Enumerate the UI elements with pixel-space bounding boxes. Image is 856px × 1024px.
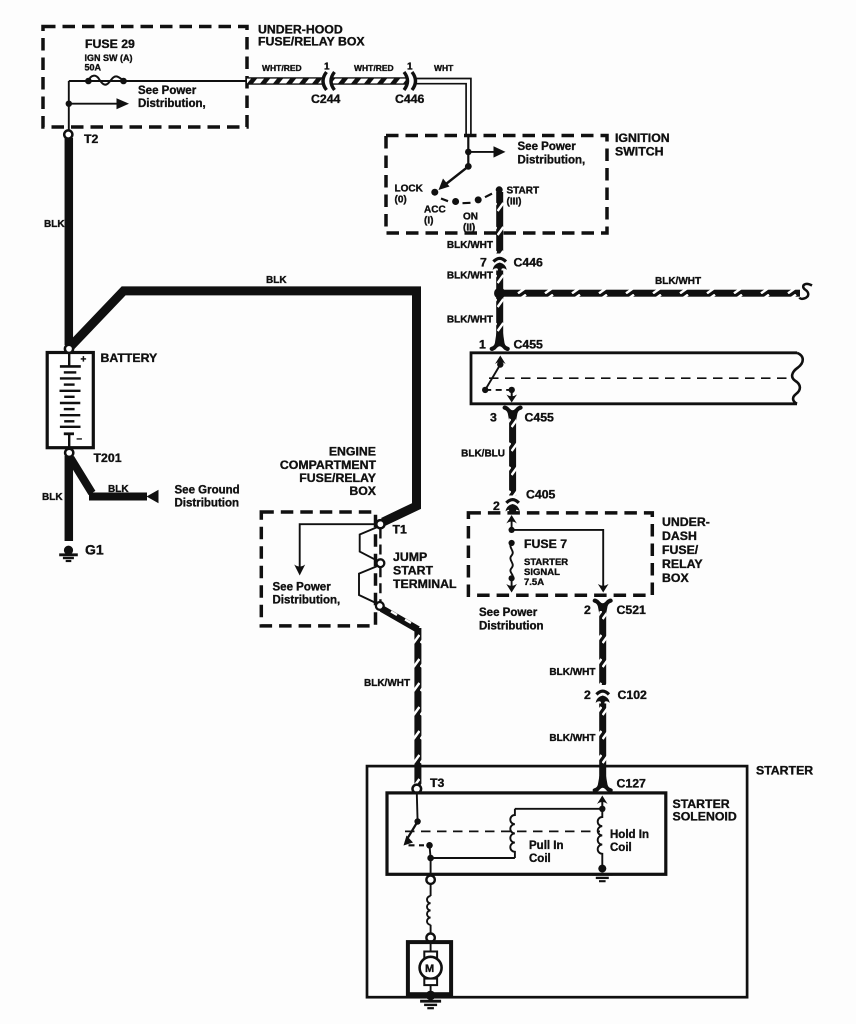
wire BLK/WHT diagonal from jump start down bbox=[382, 609, 419, 630]
svg-text:FUSE/: FUSE/ bbox=[662, 543, 699, 557]
box: engine compartment fuse/relay box (dashed) bbox=[261, 512, 375, 626]
svg-text:ENGINE: ENGINE bbox=[329, 445, 376, 459]
wire to motor coil bbox=[430, 884, 432, 896]
hold-in coil bbox=[598, 809, 603, 865]
connector C127 skirt bbox=[593, 776, 613, 792]
switch arm with arrowhead bbox=[439, 166, 469, 190]
contact ACC bbox=[452, 198, 459, 205]
svg-text:See Power: See Power bbox=[138, 85, 197, 97]
svg-text:BLK/WHT: BLK/WHT bbox=[447, 271, 493, 282]
arrow leaving strip down (C455-3) bbox=[506, 390, 517, 403]
fuse F7 symbol bbox=[506, 540, 517, 593]
box: motor enclosure bbox=[408, 942, 451, 994]
svg-text:WHT/RED: WHT/RED bbox=[262, 63, 302, 73]
svg-text:FUSE/RELAY: FUSE/RELAY bbox=[299, 471, 376, 485]
svg-text:M: M bbox=[425, 963, 434, 975]
arrow: see power distribution (fuse box) bbox=[69, 98, 129, 109]
svg-text:50A: 50A bbox=[85, 63, 102, 73]
svg-text:Distribution,: Distribution, bbox=[273, 595, 341, 607]
svg-text:IGN SW (A): IGN SW (A) bbox=[85, 53, 133, 63]
svg-text:BLK/WHT: BLK/WHT bbox=[447, 240, 493, 251]
wire BLK/WHT from START down to C446 bbox=[496, 192, 503, 254]
jump start link dashed vertical (lower) bbox=[379, 567, 381, 601]
contact START bbox=[496, 186, 503, 193]
svg-text:C446: C446 bbox=[395, 92, 425, 106]
svg-text:BLK/WHT: BLK/WHT bbox=[655, 276, 701, 287]
svg-text:7.5A: 7.5A bbox=[524, 577, 544, 588]
jump start terminal zigzag wire bbox=[360, 527, 378, 561]
branch wire to C521 bbox=[512, 530, 604, 586]
arrow entering strip (male of C455-1) bbox=[495, 356, 506, 365]
svg-text:T201: T201 bbox=[94, 451, 122, 465]
svg-text:T2: T2 bbox=[84, 132, 99, 146]
svg-text:Hold In: Hold In bbox=[610, 829, 649, 841]
svg-text:1: 1 bbox=[407, 62, 413, 73]
node: junction dot bbox=[494, 288, 505, 299]
svg-text:START: START bbox=[507, 185, 540, 196]
node dot bbox=[427, 855, 434, 862]
svg-text:BLK/WHT: BLK/WHT bbox=[364, 678, 410, 689]
node dot contact pivot bbox=[414, 818, 420, 824]
svg-text:JUMP: JUMP bbox=[393, 550, 427, 564]
svg-text:3: 3 bbox=[490, 411, 497, 425]
svg-text:IGNITION: IGNITION bbox=[615, 131, 670, 145]
terminal T3 bbox=[413, 785, 422, 794]
svg-text:LOCK: LOCK bbox=[395, 183, 424, 194]
arrow down at C521 bbox=[598, 584, 609, 593]
wire pull-in top link bbox=[515, 808, 602, 810]
svg-text:Distribution: Distribution bbox=[479, 621, 544, 633]
svg-text:1: 1 bbox=[479, 338, 486, 352]
svg-text:BOX: BOX bbox=[662, 571, 689, 585]
break symbol S bbox=[800, 284, 813, 299]
svg-text:BLK/WHT: BLK/WHT bbox=[549, 733, 595, 744]
node: junction dot fuse box bbox=[66, 101, 72, 107]
svg-text:BOX: BOX bbox=[349, 484, 376, 498]
box: starter (outer) bbox=[367, 766, 747, 997]
terminal circle below solenoid bbox=[426, 876, 434, 884]
label STARTER SIGNAL 7.5A bbox=[524, 557, 568, 588]
motor M bbox=[420, 957, 442, 979]
svg-text:C521: C521 bbox=[617, 603, 647, 617]
wire BLK/WHT C446 to junction bbox=[496, 271, 503, 294]
svg-text:(I): (I) bbox=[424, 215, 433, 226]
svg-text:SWITCH: SWITCH bbox=[615, 145, 664, 159]
dashed link bbox=[485, 389, 512, 391]
box: under-hood fuse/relay box (dashed, FUSE 29) bbox=[43, 27, 247, 128]
label ENGINE COMPARTMENT FUSE/RELAY BOX bbox=[280, 445, 377, 499]
strip internal diagonal wire bbox=[485, 365, 500, 390]
svg-text:FUSE/RELAY BOX: FUSE/RELAY BOX bbox=[258, 35, 365, 49]
box: under-dash fuse/relay box (dashed) bbox=[468, 513, 652, 595]
svg-text:UNDER-: UNDER- bbox=[662, 515, 710, 529]
jump start terminal circle 3 bbox=[376, 602, 384, 610]
svg-text:ON: ON bbox=[463, 212, 478, 223]
svg-text:FUSE 29: FUSE 29 bbox=[85, 37, 135, 51]
svg-text:See Ground: See Ground bbox=[175, 485, 240, 497]
connector C446 pin 7 (inline vertical) bbox=[492, 257, 507, 271]
motor brush top bbox=[424, 952, 437, 959]
svg-text:BLK: BLK bbox=[42, 492, 63, 503]
svg-text:C405: C405 bbox=[526, 487, 556, 501]
arrow down (see power distribution engine box) bbox=[294, 565, 305, 576]
dash to fixed contact bbox=[409, 844, 425, 846]
svg-text:C455: C455 bbox=[514, 338, 544, 352]
svg-text:See Power: See Power bbox=[273, 582, 332, 594]
label JUMP START TERMINAL bbox=[393, 550, 457, 591]
battery positive terminal circle bbox=[65, 345, 73, 353]
svg-text:SOLENOID: SOLENOID bbox=[673, 810, 737, 824]
switch arm pivot node bbox=[465, 163, 472, 170]
motor brush bottom bbox=[424, 979, 437, 986]
dashes between contacts bbox=[441, 194, 492, 204]
svg-text:See Power: See Power bbox=[479, 607, 538, 619]
svg-text:1: 1 bbox=[324, 62, 330, 73]
box: ignition switch (dashed) bbox=[386, 136, 607, 234]
svg-text:START: START bbox=[393, 564, 434, 578]
motor terminal circle bbox=[426, 934, 434, 942]
dashed mechanical link bbox=[405, 830, 600, 832]
svg-text:2: 2 bbox=[584, 688, 591, 702]
wire BLK branch to ground distribution bbox=[71, 458, 148, 497]
wire BLK/WHT horizontal to right with break bbox=[504, 290, 800, 297]
svg-text:C102: C102 bbox=[618, 688, 648, 702]
contact ON bbox=[475, 196, 482, 203]
svg-text:COMPARTMENT: COMPARTMENT bbox=[280, 458, 377, 472]
svg-text:Distribution: Distribution bbox=[175, 498, 240, 510]
pull-in coil bbox=[510, 809, 515, 858]
svg-text:ACC: ACC bbox=[424, 204, 446, 215]
wire down through solenoid box bbox=[430, 858, 432, 876]
motor series coil bbox=[427, 896, 431, 925]
svg-text:BATTERY: BATTERY bbox=[101, 351, 158, 365]
ground G1 bbox=[59, 546, 78, 561]
svg-text:T1: T1 bbox=[393, 523, 408, 537]
node dot inside strip bbox=[497, 361, 503, 367]
node dot hold-in top bbox=[599, 806, 605, 812]
solenoid switch arm with arrowhead bbox=[404, 822, 418, 846]
svg-text:TERMINAL: TERMINAL bbox=[393, 577, 457, 591]
svg-text:Coil: Coil bbox=[610, 842, 632, 854]
ground (motor) bbox=[420, 991, 441, 1009]
svg-text:BLK/WHT: BLK/WHT bbox=[549, 667, 595, 678]
svg-text:2: 2 bbox=[493, 499, 500, 513]
contact LOCK bbox=[431, 189, 438, 196]
svg-text:BLK/WHT: BLK/WHT bbox=[447, 315, 493, 326]
connector C244 bbox=[323, 72, 335, 90]
fuse F29 symbol bbox=[85, 76, 127, 85]
svg-text:Coil: Coil bbox=[529, 853, 551, 865]
connector C455 pin 3 (cup below box) bbox=[503, 406, 523, 422]
svg-text:DASH: DASH bbox=[662, 529, 697, 543]
wire T3 to contact bbox=[416, 793, 419, 821]
svg-text:(III): (III) bbox=[507, 196, 522, 207]
wire BLK battery to G1 bbox=[65, 456, 74, 541]
node: junction in ignition switch bbox=[465, 149, 472, 156]
svg-text:(0): (0) bbox=[395, 194, 407, 205]
svg-text:7: 7 bbox=[480, 256, 487, 270]
ground (hold-in coil) bbox=[592, 865, 612, 882]
wire BLK/WHT junction down to C455 bbox=[496, 297, 503, 337]
wire inside ignition switch bbox=[467, 136, 469, 167]
svg-text:Pull In: Pull In bbox=[529, 840, 564, 852]
svg-text:WHT/RED: WHT/RED bbox=[354, 63, 394, 73]
svg-text:T3: T3 bbox=[430, 776, 445, 790]
wire BLK/WHT vertical to T3 bbox=[414, 628, 421, 785]
wire BLK/WHT C102 to C127 bbox=[599, 704, 606, 785]
wire into motor bbox=[430, 942, 432, 952]
label UNDER-DASH FUSE/RELAY BOX bbox=[662, 515, 710, 585]
jump start terminal circle 2 bbox=[377, 559, 385, 567]
svg-text:(II): (II) bbox=[463, 223, 475, 234]
wire coil to motor terminal bbox=[430, 925, 432, 934]
box: C455 connector strip (torn right edge) bbox=[471, 353, 803, 404]
svg-text:BLK: BLK bbox=[44, 219, 65, 230]
wire contact down and to pull-in coil bbox=[430, 845, 515, 858]
svg-text:Distribution,: Distribution, bbox=[138, 98, 206, 110]
svg-text:STARTER: STARTER bbox=[756, 764, 813, 778]
wire WHT/RED from fuse box to C244 bbox=[247, 78, 323, 85]
svg-text:C244: C244 bbox=[311, 92, 341, 106]
wire BLK T2 to battery bbox=[65, 138, 74, 345]
terminal T1 bbox=[376, 520, 384, 528]
svg-text:2: 2 bbox=[584, 603, 591, 617]
svg-text:C127: C127 bbox=[617, 776, 647, 790]
battery bbox=[47, 352, 93, 448]
arrowhead (points left) see ground distribution bbox=[147, 490, 159, 503]
svg-text:G1: G1 bbox=[85, 542, 104, 558]
strip internal dashed bus bbox=[489, 377, 791, 379]
zigzag wire 2 bbox=[359, 566, 378, 604]
svg-text:C446: C446 bbox=[514, 256, 544, 270]
svg-text:FUSE 7: FUSE 7 bbox=[524, 537, 567, 551]
arrow C127 entering solenoid bbox=[597, 796, 608, 810]
wire BLK/WHT C521 to C102 bbox=[599, 611, 606, 685]
svg-text:WHT: WHT bbox=[434, 63, 454, 73]
svg-text:BLK/BLU: BLK/BLU bbox=[461, 449, 505, 460]
svg-text:C455: C455 bbox=[525, 411, 555, 425]
node dot bbox=[509, 387, 515, 393]
connector C446 (horizontal) bbox=[404, 72, 416, 90]
wire WHT/RED C244 to C446 bbox=[331, 78, 408, 85]
terminal T2 bbox=[64, 130, 72, 138]
svg-text:+: + bbox=[81, 355, 87, 366]
svg-text:See Power: See Power bbox=[518, 141, 577, 153]
box: starter solenoid bbox=[387, 793, 666, 874]
wire: fuse 29 internal vertical down to T2 bbox=[68, 81, 70, 130]
wire BLK/BLU bbox=[509, 416, 516, 496]
battery negative terminal circle bbox=[65, 449, 73, 457]
connector C521 pin 2 (cup below box) bbox=[593, 599, 613, 615]
svg-text:–: – bbox=[77, 434, 83, 445]
wire: branch from T1 into box bbox=[300, 524, 376, 567]
connector C455 pin 1 (skirt above box) bbox=[490, 333, 510, 351]
connector C102 (inline vertical) bbox=[595, 690, 610, 705]
wire WHT double line to ignition switch bbox=[416, 79, 471, 136]
svg-text:RELAY: RELAY bbox=[662, 557, 703, 571]
connector C405 (inline vertical) bbox=[505, 498, 520, 513]
jump start link dashed vertical (upper) bbox=[379, 529, 381, 560]
wire: fuse 29 internal horizontal bbox=[69, 80, 247, 82]
svg-text:Distribution,: Distribution, bbox=[518, 155, 586, 167]
arrow entering under-dash box bbox=[506, 515, 517, 530]
node dot (fuse 7 top) bbox=[509, 527, 515, 533]
node dot fixed contact bbox=[426, 842, 433, 849]
arrow: see power distribution (ignition) bbox=[468, 146, 505, 157]
wire BLK battery to T1 (thick path) bbox=[71, 291, 417, 522]
node dot bbox=[482, 387, 488, 393]
wire motor to ground bbox=[430, 985, 432, 995]
svg-text:BLK: BLK bbox=[266, 275, 287, 286]
svg-text:BLK: BLK bbox=[108, 484, 129, 495]
